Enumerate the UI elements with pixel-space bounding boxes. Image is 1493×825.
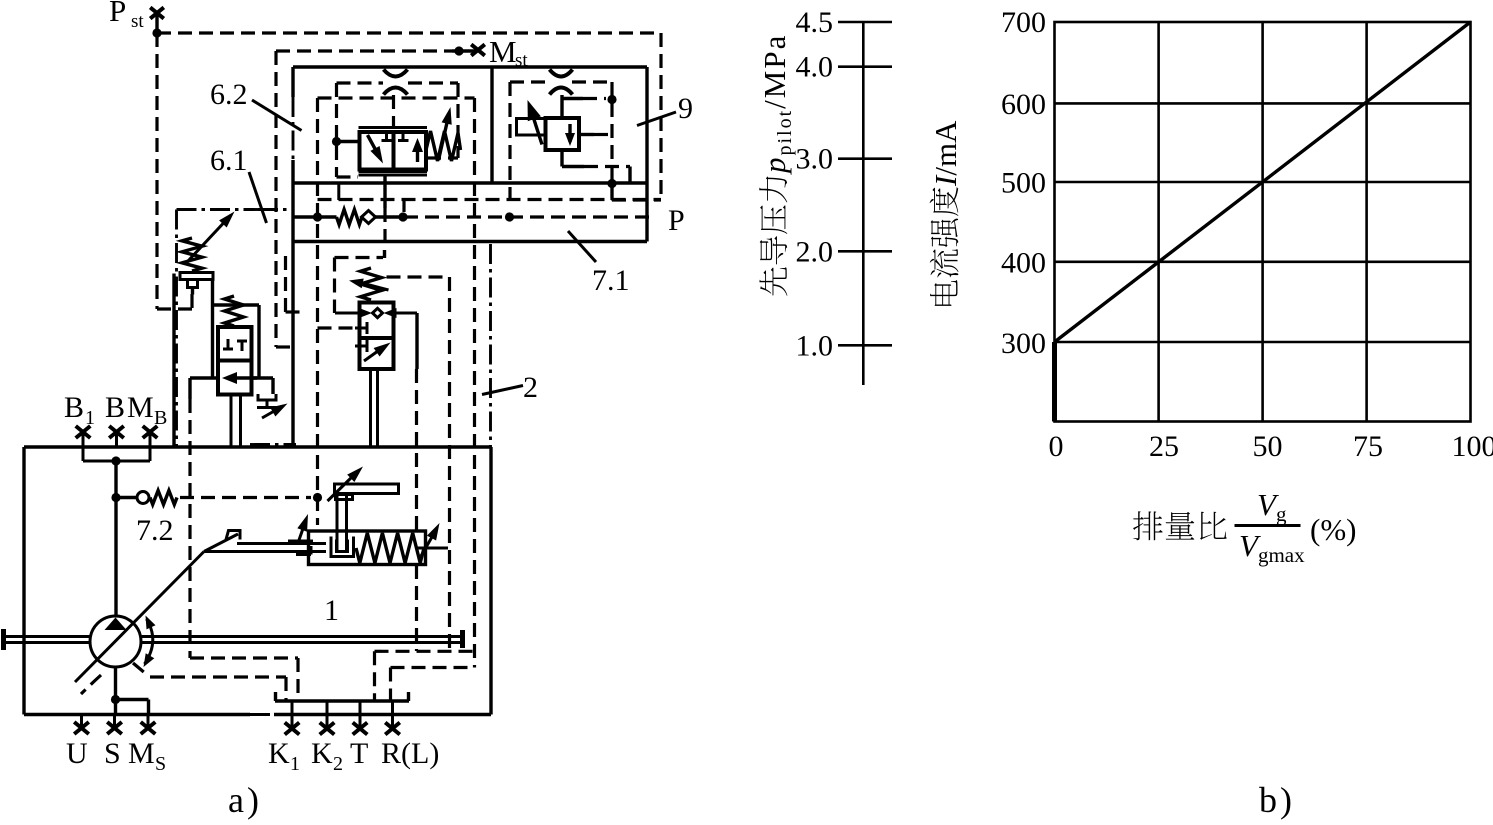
valve 9 solenoid arrow <box>530 107 542 145</box>
pump 1 circle <box>90 616 141 667</box>
valve 6.1 body <box>218 327 252 395</box>
label 7.1 <box>568 231 596 262</box>
valve 6.1 right port <box>252 376 274 379</box>
valve 6.2 right chamber arrow <box>416 143 419 162</box>
cylinder 1 spring <box>356 533 424 563</box>
check valve 7.2 <box>111 493 120 502</box>
valve 9 pilot dashes <box>581 133 595 136</box>
chain casing right <box>489 244 492 447</box>
svg-text:I/mA: I/mA <box>928 120 963 187</box>
svg-text:2: 2 <box>333 753 343 775</box>
valve 2 spring <box>361 268 382 300</box>
valve 9 outlet <box>560 151 563 167</box>
node at P_st <box>152 28 161 37</box>
chart plot frame <box>1055 22 1471 422</box>
current axis title <box>928 120 963 306</box>
wire: outer dashed box bottom jog <box>612 198 661 201</box>
svg-text:6.1: 6.1 <box>210 144 248 177</box>
svg-text:st: st <box>131 11 144 32</box>
svg-text:50: 50 <box>1253 430 1283 463</box>
chart gridlines <box>1157 22 1160 422</box>
wire: outer dashed box right edge <box>659 33 662 200</box>
svg-text:9: 9 <box>678 92 693 125</box>
svg-text:T: T <box>350 737 368 770</box>
svg-text:S: S <box>155 753 166 775</box>
feedback dashed to K2 <box>133 663 149 677</box>
valve 6.1 pilot stage <box>188 215 231 261</box>
valve 9 dashed enclosure <box>510 80 550 83</box>
valve 2 dashed enclosure <box>335 256 384 259</box>
stroking cylinder 1 lever <box>204 534 238 552</box>
main valve block outline <box>293 65 647 68</box>
control group 6 dashed boundary <box>274 51 277 347</box>
valve 2 compensator symbol <box>335 312 362 315</box>
valve 2 rod <box>369 369 372 447</box>
svg-text:4.5: 4.5 <box>796 6 834 39</box>
pilot line P dashed <box>404 215 656 218</box>
svg-text:M: M <box>128 737 155 770</box>
svg-text:U: U <box>66 737 88 770</box>
ports K1 K2 T R(L) <box>291 715 294 728</box>
valve 6.1 spool rod <box>230 395 233 448</box>
svg-text:0: 0 <box>1049 430 1064 463</box>
drain dashed to tank line <box>473 98 476 668</box>
data line <box>1055 22 1471 342</box>
pilot pressure axis title <box>757 34 796 296</box>
svg-text:B: B <box>64 391 84 424</box>
label 2 <box>482 386 523 395</box>
valve 6.2 drain stem <box>383 175 386 208</box>
svg-text:500: 500 <box>1001 166 1046 199</box>
ports U S MS <box>80 715 83 728</box>
svg-text:3.0: 3.0 <box>796 143 834 176</box>
tank manifold <box>275 699 409 702</box>
drive shaft <box>4 635 90 638</box>
svg-text:75: 75 <box>1353 430 1383 463</box>
damper branch drop <box>402 200 405 212</box>
svg-text:B: B <box>105 391 125 424</box>
svg-text:b): b) <box>1259 780 1295 820</box>
pump flow triangle <box>105 618 127 631</box>
svg-text:100: 100 <box>1452 430 1493 463</box>
svg-text:P: P <box>109 0 126 28</box>
svg-text:25: 25 <box>1149 430 1179 463</box>
valve 6.1 flow arrow <box>228 376 257 379</box>
node on valve 9 box <box>607 95 616 104</box>
valve 6.1 linkage <box>211 280 214 378</box>
svg-text:K: K <box>268 737 290 770</box>
svg-text:300: 300 <box>1001 327 1046 360</box>
damper/check 7.1 inner <box>293 215 318 218</box>
node: valve 6.2 inlet <box>332 137 341 146</box>
valve 6.2 dashed enclosure <box>318 96 475 99</box>
valve 6.1 spring <box>225 296 244 326</box>
chart axis thick segment <box>1052 342 1057 422</box>
svg-text:7.1: 7.1 <box>592 264 630 297</box>
valve 2 adjust arrow <box>358 282 389 290</box>
orifice above valve 6.2 <box>384 70 408 77</box>
svg-text:4.0: 4.0 <box>796 51 834 84</box>
valve 2 right rail <box>415 313 418 369</box>
valve 2 body <box>360 303 394 370</box>
valve 2 pilot marks <box>355 327 367 330</box>
node pilot junction <box>328 473 357 501</box>
wire to 6.1 <box>258 208 293 211</box>
svg-text:400: 400 <box>1001 246 1046 279</box>
valve 6.1 left port <box>190 376 218 379</box>
svg-text:1: 1 <box>324 594 339 627</box>
orifice above valve 9 <box>550 70 573 77</box>
svg-text:6.2: 6.2 <box>210 78 248 111</box>
valve 6.2 closed-port marks <box>385 133 388 140</box>
svg-text:2.0: 2.0 <box>796 235 834 268</box>
svg-text:(%): (%) <box>1310 512 1356 547</box>
wire: outer pilot dashed box top <box>157 31 661 34</box>
svg-text:K: K <box>311 737 333 770</box>
valve 9 top links <box>560 95 563 118</box>
chain casing left <box>175 210 178 448</box>
port M_st <box>276 49 452 52</box>
pilot dashed to K1 <box>188 399 191 658</box>
svg-text:M: M <box>489 34 517 69</box>
cylinder 1 right adjust arrow <box>417 547 448 550</box>
cylinder 1 body <box>309 531 426 565</box>
pump rotation arrow <box>145 619 153 664</box>
bottom pump housing <box>24 445 491 448</box>
svg-text:2: 2 <box>523 371 538 404</box>
label 9 <box>637 112 676 126</box>
cylinder 1 rod and arm <box>335 484 399 494</box>
valve 6.2 spring <box>426 131 461 161</box>
valve 2 flow arrow <box>364 346 385 361</box>
wire: P_st pilot drop <box>155 33 158 309</box>
valve 9 body <box>546 118 580 150</box>
chain tick above lower box <box>250 443 296 446</box>
valve 9 flow arrow <box>568 124 571 142</box>
svg-text:S: S <box>104 737 121 770</box>
x axis title <box>1133 511 1163 540</box>
valve 6.2 left chamber arrow <box>368 135 380 157</box>
svg-text:600: 600 <box>1001 88 1046 121</box>
svg-text:M: M <box>127 391 154 424</box>
svg-text:1: 1 <box>290 753 300 775</box>
valve 6.2 adjust arrow <box>439 116 449 160</box>
svg-text:R(L): R(L) <box>381 737 439 770</box>
valve 6.1 left rail <box>172 274 175 448</box>
valve 6.2 body <box>359 126 428 129</box>
svg-text:a): a) <box>228 780 262 820</box>
pump swash diagonal <box>75 552 204 683</box>
svg-text:P: P <box>668 204 685 237</box>
svg-text:700: 700 <box>1001 6 1046 39</box>
cylinder 1 feedback arrow <box>288 540 313 543</box>
suction line S <box>114 667 117 715</box>
svg-text:1.0: 1.0 <box>796 329 834 362</box>
svg-text:7.2: 7.2 <box>136 514 174 547</box>
